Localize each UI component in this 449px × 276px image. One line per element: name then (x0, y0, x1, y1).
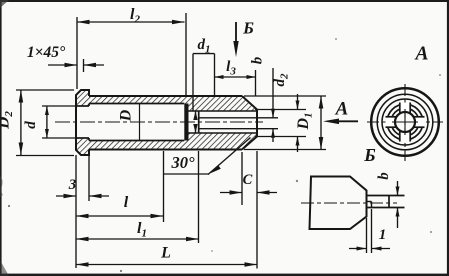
flange outline (76, 90, 89, 155)
view A circle 2 (377, 94, 433, 150)
svg-text:l3: l3 (226, 59, 236, 78)
svg-text:b: b (250, 56, 266, 64)
view A center cross thin lines (392, 121, 418, 123)
dim 3 flange thickness (75, 155, 77, 268)
end-face extension lines for d2 (255, 109, 306, 111)
slot b lines extended right (199, 117, 278, 119)
flange hatched section upper (76, 90, 89, 106)
view B blade (367, 195, 405, 197)
dim L (256, 151, 258, 269)
dim 1 view B slot (366, 218, 368, 253)
section arrow B top (235, 22, 237, 44)
dim l to thread end (163, 151, 165, 222)
view A slot tabs cross (400, 103, 410, 114)
svg-text:D2: D2 (0, 111, 15, 130)
body outer top edge (89, 95, 242, 97)
svg-text:D1: D1 (295, 112, 315, 130)
head chamfer 30deg top (242, 96, 257, 110)
svg-text:A: A (335, 99, 349, 120)
view B blade slot (367, 201, 372, 203)
main view centerline (axis) (55, 121, 263, 123)
head chamfer 30deg bottom (242, 137, 257, 150)
view B centerline (301, 202, 397, 204)
body outer bottom edge (89, 149, 242, 151)
scan border frame (0, 0, 449, 2)
flange hatched section lower (76, 138, 89, 155)
view arrow A pointing left (338, 120, 358, 122)
svg-text:d1: d1 (198, 37, 211, 56)
internal shoulder thick line (184, 104, 188, 141)
hole d1 outline (189, 110, 258, 112)
svg-text:d: d (23, 121, 39, 129)
dim l3 (255, 70, 257, 96)
dim l1 (198, 151, 200, 243)
dim 1x45 chamfer lines (83, 59, 85, 72)
svg-text:3: 3 (68, 177, 77, 193)
view A center circle (395, 112, 415, 132)
svg-text:1×45°: 1×45° (27, 44, 66, 61)
dim D1 (320, 96, 322, 150)
svg-text:C: C (243, 172, 253, 188)
svg-text:D: D (118, 109, 135, 122)
view A centerlines (404, 84, 406, 161)
scan artifact left edge (0, 176, 3, 197)
dim d1 arrows inside hole (195, 111, 197, 118)
svg-text:L: L (160, 245, 171, 262)
thread end line in bore (139, 104, 141, 141)
body lower wall and head hatched section (89, 133, 257, 150)
svg-text:1: 1 (379, 227, 387, 243)
dim d flange hole (42, 105, 75, 107)
head end face edge (256, 110, 258, 137)
svg-text:A: A (413, 44, 428, 65)
bore D top line (89, 103, 184, 105)
flange hole lines (d) (76, 105, 89, 107)
svg-text:d2: d2 (272, 73, 291, 87)
svg-text:30°: 30° (170, 153, 195, 172)
svg-text:b: b (376, 172, 392, 180)
svg-text:l1: l1 (137, 220, 147, 240)
view A circle 3 (382, 99, 428, 145)
bore D bottom line (89, 140, 184, 142)
paper speckles (8, 205, 10, 207)
view A inner ring (387, 104, 423, 140)
dim l2 (76, 17, 78, 89)
body upper wall and head hatched section (89, 96, 257, 111)
svg-text:l2: l2 (130, 6, 140, 26)
svg-text:l: l (124, 194, 129, 211)
dim C chamfer length (241, 152, 243, 205)
svg-text:Б: Б (363, 145, 375, 165)
svg-text:Б: Б (242, 19, 254, 38)
view B body outline (310, 177, 367, 230)
scan artifact bottom-left corner (0, 260, 9, 276)
scan artifact top-left corner (0, 0, 9, 8)
outer extension lines for D1 (244, 95, 326, 97)
dim D2 flange diameter (16, 89, 74, 91)
view A outer circle knurled rim (371, 88, 439, 156)
